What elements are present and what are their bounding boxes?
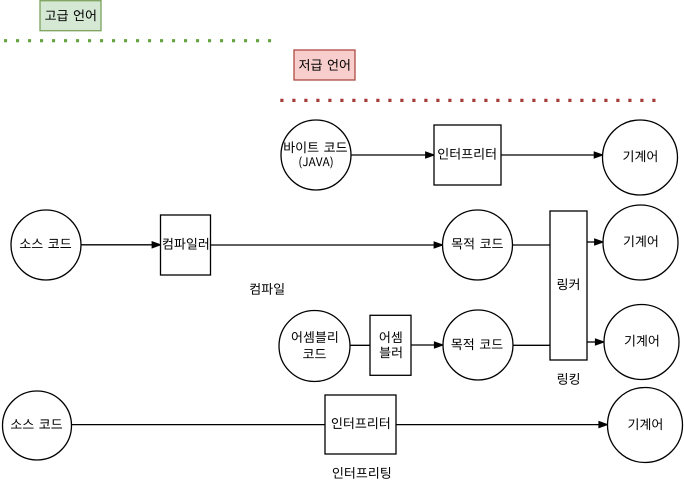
process box: linker 링커 xyxy=(550,211,587,360)
dotted separator line (red, low-level zone) xyxy=(280,99,656,102)
node: source code circle 소스 코드 (row 2) xyxy=(11,210,81,280)
wire: interpreter to machine language (arrow, row 4) xyxy=(396,422,608,428)
dotted separator line (green, high-level zone) xyxy=(4,39,272,42)
wire: assembler to object code (arrow) xyxy=(411,342,443,348)
node: object code circle 목적 코드 (row 3) xyxy=(443,310,513,380)
wire: interpreter to machine language (arrow) xyxy=(501,152,603,158)
node: machine language circle 기계어 (row 3) xyxy=(604,305,679,380)
node: assembly code circle 어셈블리 코드 xyxy=(279,311,350,382)
wire: linker to machine language (arrow, row 2) xyxy=(587,239,603,245)
node: source code circle 소스 코드 (row 4) xyxy=(3,391,72,460)
process box: assembler 어셈블러 xyxy=(370,315,411,375)
label box: high-level language 고급 언어 xyxy=(40,1,101,31)
label: compile 컴파일 xyxy=(250,283,284,295)
process box: compiler 컴파일러 xyxy=(161,215,211,275)
wire: source code to interpreter (row 4) xyxy=(72,424,326,426)
wire: byte code to interpreter (arrow) xyxy=(351,152,434,158)
label: linking 링킹 xyxy=(558,373,579,385)
wire: linker to machine language (arrow, row 3) xyxy=(587,339,604,345)
process box: interpreter 인터프리터 (top) xyxy=(434,125,501,185)
wire: compiler to object code (arrow) xyxy=(211,242,443,248)
wire: source code to compiler (arrow) xyxy=(81,242,161,248)
wire: object code to linker (row 2) xyxy=(513,244,551,246)
node: machine language circle 기계어 (row 4) xyxy=(608,388,683,463)
wire: assembly code to assembler xyxy=(350,344,370,346)
node: machine language circle 기계어 (row 2) xyxy=(603,205,678,280)
node: object code circle 목적 코드 (row 2) xyxy=(443,210,513,280)
label: interpreting 인터프리팅 xyxy=(333,467,390,479)
label box: low-level language 저급 언어 xyxy=(294,50,355,80)
node: byte code circle 바이트 코드 (JAVA) xyxy=(281,120,351,190)
wire: object code to linker (row 3) xyxy=(513,344,550,346)
process box: interpreter 인터프리터 (bottom) xyxy=(325,395,396,454)
node: machine language circle 기계어 (row 1) xyxy=(603,120,678,195)
